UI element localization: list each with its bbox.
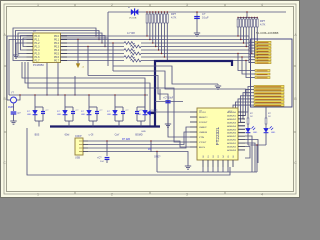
wire module bottoms to bus — [137, 120, 145, 122]
svg-text:3: 3 — [186, 3, 188, 7]
diode D5 — [144, 107, 146, 110]
wire bottom ground return — [27, 128, 230, 175]
IC U2 FT2232L — [197, 108, 238, 160]
wire U1 pin to left rail — [7, 36, 27, 100]
resistor RP1 element — [155, 12, 157, 14]
svg-text:CaY: CaY — [115, 134, 120, 137]
wire usb vbus drop to cap — [106, 141, 108, 156]
wire rail drop — [107, 12, 109, 43]
svg-text:XTIN: XTIN — [199, 137, 204, 139]
resistor R5 zigzag — [124, 56, 134, 59]
wire module rail riser — [74, 76, 76, 95]
J1 pin 1 — [83, 140, 88, 142]
port io5 — [250, 101, 254, 103]
port ctrl2 — [250, 77, 255, 79]
wire — [245, 90, 250, 116]
svg-text:C?: C? — [202, 12, 206, 16]
resistor R6 zigzag — [131, 45, 141, 48]
svg-text:ADBUS1: ADBUS1 — [227, 114, 237, 117]
svg-text:4.7K: 4.7K — [260, 22, 266, 26]
wire staircase to U2 area 3 — [28, 62, 190, 142]
resistor R8 zigzag — [131, 59, 141, 62]
U1 pins left — [27, 35, 34, 37]
svg-text:LED: LED — [271, 132, 276, 134]
svg-text:LED: LED — [27, 114, 32, 116]
capacitor C1 0.1uF — [194, 17, 200, 19]
wire — [242, 57, 250, 74]
wire module bottoms to bus — [89, 120, 97, 122]
port D2 — [249, 43, 255, 48]
svg-text:CON?: CON? — [75, 135, 82, 138]
wire data line — [61, 53, 125, 55]
port io3 — [250, 95, 254, 97]
svg-text:c-OI: c-OI — [89, 134, 94, 137]
port io0 — [250, 86, 254, 88]
wire — [13, 28, 96, 61]
capacitor C5 — [72, 107, 74, 112]
port io6 — [250, 104, 254, 106]
svg-text:XTOUT: XTOUT — [199, 142, 207, 144]
capacitor C10 10uF — [165, 101, 170, 103]
svg-text:ACBUS0: ACBUS0 — [227, 139, 237, 142]
port D4 — [249, 50, 255, 54]
svg-text:2: 2 — [111, 3, 113, 7]
wire — [238, 54, 250, 71]
svg-text:GND?: GND? — [154, 157, 161, 159]
svg-text:GND: GND — [141, 131, 146, 133]
resistor RP1 element — [146, 12, 148, 14]
wire U2 right loop — [245, 136, 252, 172]
svg-text:FT2232L: FT2232L — [215, 126, 220, 145]
svg-text:GND?: GND? — [151, 111, 158, 113]
resistor RP2 element — [246, 17, 247, 18]
port D7 — [249, 61, 255, 63]
svg-text:4: 4 — [261, 3, 263, 7]
resistor R10 1K — [265, 118, 267, 124]
resistor RP1 element — [161, 12, 163, 14]
wire module bottoms to bus — [35, 120, 43, 122]
wire crystal to cap — [13, 104, 15, 111]
svg-text:RP?: RP? — [171, 12, 177, 16]
svg-text:USBDP: USBDP — [199, 127, 207, 129]
diode D1 — [34, 107, 36, 110]
svg-text:ADBUS6: ADBUS6 — [227, 132, 237, 135]
wire — [241, 96, 251, 123]
svg-text:3: 3 — [186, 192, 188, 196]
wire U2 bottom pin drops — [202, 167, 204, 172]
capacitor C9 usb — [105, 158, 110, 160]
resistor RP2 element — [257, 17, 258, 18]
svg-text:VCC: VCC — [228, 111, 233, 113]
svg-text:2: 2 — [111, 192, 113, 196]
wire U1 pin to left rail 2 — [9, 40, 27, 96]
wire data line — [61, 56, 125, 58]
resistor R9 1K — [247, 118, 249, 124]
svg-text:R? 22R: R? 22R — [122, 138, 130, 141]
svg-text:1: 1 — [37, 192, 39, 196]
resistor RP2 element — [240, 17, 241, 18]
resistor RP2 element — [254, 17, 255, 18]
port ctrl1 — [250, 73, 255, 75]
ground under C1 — [194, 33, 200, 36]
wire — [23, 38, 108, 50]
svg-text:RESET#: RESET# — [199, 117, 208, 119]
svg-text:+C?: +C? — [97, 157, 102, 160]
svg-text:ACBUS2: ACBUS2 — [227, 146, 237, 149]
crystal Y1 — [11, 97, 17, 103]
svg-text:4.7 R8: 4.7 R8 — [127, 31, 135, 35]
svg-text:USB: USB — [75, 157, 80, 160]
svg-text:RP?: RP? — [260, 19, 266, 23]
capacitor C8 — [136, 107, 138, 112]
svg-text:ADBUS4: ADBUS4 — [227, 125, 237, 128]
wire data line — [61, 39, 125, 41]
port io2 — [250, 92, 254, 94]
svg-text:P1.7: P1.7 — [35, 60, 41, 63]
svg-text:ADBUS7: ADBUS7 — [227, 135, 237, 138]
svg-text:ADBUS5: ADBUS5 — [227, 128, 237, 131]
resistor R7 zigzag — [131, 52, 141, 55]
wire — [18, 33, 102, 54]
wire RP2 common rail — [238, 17, 257, 19]
wire 3v3 branch — [155, 101, 183, 103]
svg-text:LED: LED — [253, 132, 258, 134]
resistor RP1 element — [152, 12, 154, 14]
wire led feeds — [247, 107, 249, 118]
module 60sI — [64, 95, 66, 107]
resistor R3 zigzag — [124, 42, 134, 45]
wire — [246, 61, 250, 78]
module B0S — [34, 95, 36, 107]
diode D4 — [114, 107, 116, 110]
wire — [236, 102, 251, 129]
resistor RP1 element — [163, 12, 165, 14]
resistor RP1 element — [158, 12, 160, 14]
wire C10 to ground — [167, 103, 169, 124]
ground under C10 — [165, 124, 171, 127]
module CaY — [114, 95, 116, 107]
LED D6 — [247, 124, 249, 128]
capacitor C4 — [42, 107, 44, 112]
U1 pins right — [61, 35, 68, 37]
svg-text:LED: LED — [107, 114, 112, 116]
wire — [16, 31, 100, 58]
wire vertical to power arrow — [87, 47, 89, 76]
port D3 — [249, 47, 255, 52]
border frame outer — [4, 4, 296, 194]
wire data line — [61, 35, 125, 37]
power port 3V3 left arrow — [147, 110, 151, 115]
sheet background — [0, 0, 300, 198]
wire data line — [61, 42, 125, 44]
svg-text:P0.7: P0.7 — [54, 60, 60, 63]
mid thick bus — [50, 125, 160, 127]
LED D7 — [265, 124, 267, 128]
resistor RP2 element — [251, 17, 252, 18]
diode D3 — [88, 107, 90, 110]
J1 pin 3 — [83, 147, 88, 149]
sheet symbol box right — [251, 39, 293, 107]
IC U1 PC16550 — [33, 33, 61, 63]
ground mid sheet — [217, 84, 219, 85]
resistor RP2 element — [248, 17, 249, 18]
power port +5 arrow down — [76, 64, 80, 68]
wire — [21, 36, 106, 51]
resistor RP2 element — [237, 17, 238, 18]
U2 pins left — [190, 111, 197, 113]
capacitor C6 — [96, 107, 98, 112]
wire led returns — [248, 144, 266, 146]
port D5 — [249, 54, 255, 57]
wire staircase mid 2 — [113, 71, 246, 95]
wire — [233, 105, 250, 133]
svg-text:EECS: EECS — [199, 147, 205, 149]
svg-text:LED: LED — [57, 114, 62, 116]
wire long vertical from staircase — [112, 43, 114, 71]
svg-text:60sI: 60sI — [65, 134, 70, 137]
wire staircase to U2 area — [22, 62, 190, 112]
resistor RP1 element — [166, 12, 168, 14]
wire — [245, 87, 250, 113]
svg-text:PC16550: PC16550 — [33, 63, 44, 67]
wire data line — [61, 60, 125, 62]
U2 pins bottom — [202, 160, 204, 167]
wire module bottoms to bus — [65, 120, 73, 122]
svg-text:LED: LED — [137, 114, 142, 116]
svg-text:51-CKB+10KBB8: 51-CKB+10KBB8 — [256, 31, 279, 35]
wire bottom return 2 — [157, 171, 257, 173]
bus stub to power arrow — [150, 112, 155, 114]
svg-text:0.1uF: 0.1uF — [202, 15, 209, 19]
diode D2 — [64, 107, 66, 110]
wire left rail to modules — [9, 94, 148, 96]
svg-text:3V3OUT: 3V3OUT — [199, 122, 208, 124]
J1 pin 2 — [83, 144, 88, 146]
wire drop to series resistor — [150, 141, 152, 152]
wire drop to bottom rail — [156, 152, 158, 173]
resistor R4 zigzag — [124, 49, 134, 52]
connector J1 USB — [75, 138, 83, 155]
svg-text:4: 4 — [261, 192, 263, 196]
wire — [243, 93, 250, 119]
svg-text:1: 1 — [37, 3, 39, 7]
ground under crystal cap — [10, 121, 16, 124]
capacitor C under crystal — [11, 112, 17, 114]
ground top-left — [13, 55, 19, 58]
svg-text:C: C — [294, 161, 297, 165]
port io4 — [250, 98, 254, 100]
svg-text:ACBUS3: ACBUS3 — [227, 149, 237, 152]
port ctrl0 — [250, 70, 255, 72]
svg-text:ACBUS1: ACBUS1 — [227, 142, 237, 145]
svg-text:4.7K: 4.7K — [171, 15, 177, 19]
capacitor C7 — [122, 107, 124, 112]
port D0 — [249, 36, 255, 42]
svg-text:B0S: B0S — [35, 134, 40, 137]
svg-text:ADBUS2: ADBUS2 — [227, 118, 237, 121]
wire usb lines to U2 — [88, 141, 190, 147]
port D1 — [249, 40, 255, 46]
J1 pin 4 — [83, 151, 88, 153]
bus thick navy horizontal — [155, 61, 232, 127]
svg-text:BSMD: BSMD — [135, 134, 142, 137]
wire U1 pin stub to ground — [16, 43, 27, 55]
wire cap C1 leads — [196, 12, 198, 33]
module BSMD — [144, 95, 146, 107]
wire data line — [61, 46, 125, 48]
power port VCC bar — [131, 8, 138, 15]
svg-text:ADBUS3: ADBUS3 — [227, 121, 237, 124]
resistor RP1 element — [149, 12, 151, 14]
wire cap to ground — [13, 114, 15, 121]
resistor RP2 element — [243, 17, 244, 18]
wire vertical to +5 port — [77, 40, 79, 64]
port D6 — [249, 57, 255, 60]
svg-text:VCC5B: VCC5B — [129, 17, 137, 19]
border ticks and zone labels — [4, 4, 296, 194]
wire data line — [61, 49, 125, 51]
wire cap drop x160 — [159, 89, 161, 100]
wire U1 bottom drops — [46, 62, 48, 95]
wire — [238, 99, 250, 126]
wire staircase to U2 area 2 — [25, 62, 150, 127]
wire staircase mid 1 — [113, 66, 200, 84]
svg-text:USBDM: USBDM — [199, 132, 207, 134]
ground usb shield — [185, 166, 191, 169]
svg-text:+C? 10uF: +C? 10uF — [163, 98, 174, 100]
border frame inner — [7, 7, 294, 192]
port io1 — [250, 89, 254, 91]
svg-text:C: C — [3, 161, 6, 165]
wire VCC rail — [108, 11, 286, 13]
module c-OI — [88, 95, 90, 107]
svg-text:4MHz: 4MHz — [8, 106, 15, 109]
wire module bottoms to bus — [115, 120, 123, 122]
svg-text:LED: LED — [81, 114, 86, 116]
wire staircase mid 3 — [88, 76, 190, 138]
U2 pins right — [238, 111, 245, 113]
